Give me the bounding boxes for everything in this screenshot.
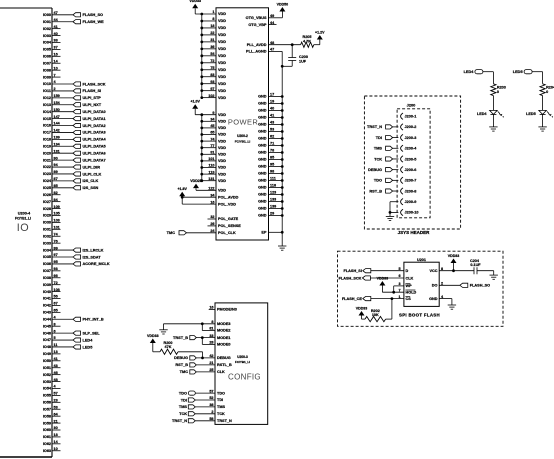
- svg-text:R204: R204: [546, 85, 554, 89]
- svg-text:58: 58: [209, 417, 213, 421]
- IC U200-2 pin 54 VDD: [200, 52, 226, 58]
- svg-text:IO01: IO01: [43, 20, 51, 24]
- svg-text:PMODE/N3: PMODE/N3: [217, 308, 237, 312]
- IC U200-2 pin 19 GND: [258, 100, 284, 106]
- svg-text:43: 43: [270, 121, 274, 125]
- svg-text:FLASH_SCK: FLASH_SCK: [339, 276, 362, 280]
- svg-text:134: 134: [54, 142, 61, 146]
- connector J200 pin 10 (J200-10): [401, 209, 419, 215]
- net flag TMC: [167, 231, 187, 235]
- IC U200-4 pin 16 (IO06): [43, 53, 61, 59]
- IC U201 pin 2 DO / wire to FLASH_SO: [432, 282, 460, 288]
- resistor R205 4.7K: [301, 35, 314, 47]
- IC U200-2 pin 34 POL_AVDD: [210, 193, 238, 199]
- svg-text:J200-5: J200-5: [405, 157, 417, 161]
- svg-text:VDD: VDD: [218, 159, 226, 163]
- connector J200 pin 5 (J200-5): [401, 156, 417, 162]
- IC U200-4 pin 93 (IO37): [43, 267, 61, 273]
- svg-text:85: 85: [270, 156, 274, 160]
- IC U201 reference designator: [417, 258, 426, 262]
- svg-text:133: 133: [270, 198, 276, 202]
- svg-text:VDD: VDD: [218, 82, 226, 86]
- IC U200-2 pin 29 GND: [258, 212, 284, 218]
- svg-text:PLL_AGND: PLL_AGND: [246, 50, 267, 54]
- svg-text:PHY_INT_B: PHY_INT_B: [83, 318, 104, 322]
- IC U200-4 pin 10 (IO08): [43, 66, 61, 72]
- IC U200-2 pin 118 GND: [258, 184, 284, 190]
- svg-text:IO52: IO52: [43, 373, 51, 377]
- wire VDD bus (group A): [201, 14, 203, 98]
- svg-text:IO30: IO30: [43, 221, 51, 225]
- svg-text:WP: WP: [406, 284, 413, 288]
- svg-text:IO43: IO43: [43, 311, 51, 315]
- svg-text:7: 7: [399, 288, 401, 292]
- IC U200-4 pin 103 (IO30): [43, 219, 61, 225]
- svg-text:FLASH_SO: FLASH_SO: [470, 284, 490, 288]
- ground (LED4): [489, 127, 497, 131]
- svg-text:LED4: LED4: [83, 338, 94, 342]
- power symbol VDD33 (WP/HOLD): [377, 276, 389, 285]
- svg-text:71: 71: [270, 142, 274, 146]
- net flag FLASH_SO: [460, 283, 490, 287]
- IC U200-4 pin 97 (IO35) / net I2S_SDAT: [43, 253, 101, 259]
- IC U200-4 IO block body: [0, 8, 52, 457]
- svg-text:IO25: IO25: [43, 186, 51, 190]
- svg-text:FC/YB1_LI: FC/YB1_LI: [235, 360, 250, 364]
- svg-text:CS: CS: [406, 297, 412, 301]
- svg-text:VDD: VDD: [218, 54, 226, 58]
- svg-text:TMS: TMS: [217, 405, 225, 409]
- IC U200-2 pin 9 VDD: [200, 111, 226, 117]
- svg-text:89: 89: [54, 170, 58, 174]
- svg-text:IO54: IO54: [43, 387, 52, 391]
- svg-text:VDD33: VDD33: [448, 254, 460, 258]
- IC U200-4 pin 11 (IO48) / net LED5: [43, 343, 93, 349]
- svg-text:1: 1: [399, 295, 401, 299]
- svg-text:IO35: IO35: [43, 255, 51, 259]
- svg-text:IO13: IO13: [43, 103, 51, 107]
- svg-text:66: 66: [54, 274, 58, 278]
- IC U200-4 pin 10 (IO63): [43, 447, 61, 453]
- IC U200-3 pin 21 RSTL_B: [196, 361, 232, 367]
- net flag FLASH_CE: [342, 297, 371, 301]
- svg-text:+1.8V: +1.8V: [177, 187, 187, 191]
- svg-text:VDD: VDD: [218, 172, 226, 176]
- IC U200-4 pin 7 (IO09): [43, 73, 61, 79]
- svg-text:J200-2: J200-2: [405, 125, 417, 129]
- IC U200-4 pin 5 (IO47) / net LED4: [43, 336, 93, 342]
- IC U201 pin 1 CS / wire FLASH_CE / junction: [371, 295, 411, 301]
- wire R200 to DEBUG line / junction: [178, 352, 204, 360]
- svg-text:122: 122: [208, 187, 214, 191]
- net flag RST_B: [175, 363, 196, 367]
- svg-text:IO59: IO59: [43, 421, 51, 425]
- wire LED LED4 to ground: [492, 115, 494, 127]
- svg-text:ULPI_CLK: ULPI_CLK: [83, 172, 102, 176]
- net flag TMS: [179, 405, 195, 409]
- svg-text:IO00: IO00: [43, 13, 51, 17]
- svg-text:47: 47: [270, 48, 274, 52]
- IC U200-4 pin 67 (IO42): [43, 302, 61, 308]
- svg-text:IO45: IO45: [43, 324, 51, 328]
- power symbol VDD33 (R200 pullup): [147, 334, 159, 343]
- IC U200-4 pin 109 (IO28): [43, 205, 61, 211]
- IC U200-2 part name POWER: [228, 118, 259, 127]
- svg-text:ULPI_DATA4: ULPI_DATA4: [83, 138, 107, 142]
- connector J200 dashed body: [397, 109, 430, 218]
- IC U200-2 pin 62 GND: [258, 135, 284, 141]
- svg-text:72: 72: [210, 59, 214, 63]
- IC U200-4 pin 6 (IO46) / net SLP_SEL: [43, 329, 100, 335]
- IC U200-2 pin 17 GND: [258, 93, 284, 99]
- svg-text:IO14: IO14: [43, 110, 52, 114]
- svg-text:18: 18: [54, 433, 58, 437]
- svg-text:TRST_N: TRST_N: [217, 419, 232, 423]
- svg-text:IO36: IO36: [43, 262, 51, 266]
- capacitor C204 0.1UF: [470, 259, 481, 274]
- svg-text:101: 101: [208, 157, 214, 161]
- svg-text:IO19: IO19: [43, 144, 51, 148]
- svg-text:TMC: TMC: [167, 231, 176, 235]
- svg-text:LED5: LED5: [526, 112, 536, 116]
- resistor R203 0: [491, 84, 506, 96]
- svg-text:VDD: VDD: [218, 19, 226, 23]
- svg-text:FLASH_WE: FLASH_WE: [83, 20, 105, 24]
- IC U200-3 pin 42 DEBUG: [196, 354, 230, 360]
- IC U200-2 pin 85 GND: [258, 156, 284, 162]
- svg-text:GND: GND: [258, 200, 267, 204]
- IC U200-4 pin 95 (IO36) / net ACORE_MCLK: [43, 260, 110, 266]
- svg-text:TRST_N: TRST_N: [367, 125, 382, 129]
- svg-text:DO: DO: [432, 284, 438, 288]
- IC U200-3 pin 57 TDO: [195, 389, 225, 395]
- svg-text:GND: GND: [258, 137, 267, 141]
- svg-text:VDD: VDD: [218, 153, 226, 157]
- IC U200-3 pin 8 MODE3: [211, 320, 230, 326]
- svg-text:VCC: VCC: [429, 269, 437, 273]
- net flag TRST_N: [172, 419, 195, 423]
- svg-text:ULPI_STP: ULPI_STP: [83, 96, 102, 100]
- IC U200-2 pin 123 GND: [258, 191, 284, 197]
- svg-text:57: 57: [209, 389, 213, 393]
- svg-text:IO03: IO03: [43, 34, 51, 38]
- net flag FLASH_SI: [344, 269, 371, 273]
- IC U200-2 pin 65 VDD: [200, 131, 226, 137]
- svg-text:SPI BOOT FLASH: SPI BOOT FLASH: [399, 312, 440, 317]
- IC U201 pin 5 D / wire FLASH_SI: [371, 267, 409, 273]
- connector J200 pin 7 (J200-7): [401, 177, 417, 183]
- IC U200-4 pin 85 (IO25) / net I2S_SSN: [43, 184, 99, 190]
- IC U200-4 pin 43 (IO51): [43, 364, 61, 370]
- svg-text:IO33: IO33: [43, 241, 51, 245]
- svg-text:47K: 47K: [165, 345, 172, 349]
- wire R204 to LED: [542, 96, 544, 111]
- net flag DEBUG: [174, 356, 196, 360]
- wire TMS to J200-4: [393, 147, 399, 149]
- IC U200-4 pin 87 (IO24) / net I2S_CLK: [43, 177, 99, 183]
- svg-text:OTG_VBUS: OTG_VBUS: [246, 16, 267, 20]
- svg-text:U200-3: U200-3: [237, 355, 248, 359]
- svg-text:142: 142: [54, 129, 60, 133]
- svg-text:SLP_SEL: SLP_SEL: [83, 331, 101, 335]
- svg-text:2: 2: [441, 282, 443, 286]
- svg-text:13: 13: [54, 350, 58, 354]
- svg-text:IO16: IO16: [43, 124, 51, 128]
- wire R203 to LED: [492, 96, 494, 111]
- svg-text:0: 0: [546, 90, 548, 94]
- svg-text:23: 23: [54, 399, 58, 403]
- svg-text:VDD33: VDD33: [356, 306, 368, 310]
- wire MODE3 to ground / junction: [164, 322, 216, 330]
- IC U200-4 pin 14 (IO07): [43, 59, 61, 65]
- svg-text:IO08: IO08: [43, 68, 51, 72]
- svg-text:98: 98: [270, 170, 274, 174]
- svg-text:TDO: TDO: [217, 391, 225, 395]
- IC U200-2 pin 131 VDD: [200, 177, 226, 183]
- svg-text:123: 123: [270, 191, 276, 195]
- wire GND bus: [281, 97, 283, 247]
- svg-text:VDD: VDD: [218, 166, 226, 170]
- svg-text:GND: GND: [258, 172, 267, 176]
- IC U200-2 pin 93 VDD: [200, 80, 226, 86]
- svg-text:IO56: IO56: [43, 401, 51, 405]
- svg-text:GND: GND: [258, 179, 267, 183]
- svg-text:IO: IO: [17, 222, 29, 234]
- label JSYS HEADER: [398, 230, 431, 235]
- svg-text:139: 139: [270, 205, 276, 209]
- wire VDD33 to R200: [153, 343, 160, 352]
- svg-text:32: 32: [210, 215, 214, 219]
- svg-text:IO49: IO49: [43, 352, 51, 356]
- IC U200-3 pin 81 MODE2: [209, 327, 230, 333]
- IC U200-2 pin 32 POL_GATE: [208, 215, 239, 221]
- net flag TMC (clock input): [180, 370, 197, 374]
- net flag FLASH_SCK: [339, 276, 371, 280]
- svg-text:2: 2: [211, 410, 213, 414]
- svg-text:IO12: IO12: [43, 96, 51, 100]
- svg-text:DEBUG: DEBUG: [174, 356, 188, 360]
- wire RST_B to J200-8: [393, 190, 399, 192]
- svg-text:IO34: IO34: [43, 248, 52, 252]
- ground (J200): [386, 216, 394, 220]
- svg-text:IO02: IO02: [43, 27, 51, 31]
- IC U200-2 pin 122 VDD / wire from VDD25: [196, 187, 226, 193]
- IC U200-4 pin 99 (IO34) / net I2S_LRCLK: [43, 246, 104, 252]
- connector J200 reference designator: [407, 102, 416, 107]
- svg-text:FLASH_SO: FLASH_SO: [83, 13, 104, 17]
- svg-text:83: 83: [210, 73, 214, 77]
- IC U200-4 pin 46 (IO52): [43, 371, 61, 377]
- IC U200-2 pin 102 VDD: [200, 94, 226, 100]
- svg-text:POL_GATE: POL_GATE: [218, 217, 239, 221]
- svg-text:FLASH_CE: FLASH_CE: [342, 297, 363, 301]
- svg-text:DEBUG: DEBUG: [368, 168, 382, 172]
- ground (POWER GND bus): [278, 246, 286, 250]
- wire C204 to ground: [477, 271, 494, 275]
- svg-text:IO51: IO51: [43, 366, 51, 370]
- svg-text:IO28: IO28: [43, 207, 51, 211]
- IC U200-2 pin 133 GND: [258, 198, 284, 204]
- IC U200-4 pin 56 (IO41): [43, 295, 61, 301]
- svg-text:CONFIG: CONFIG: [228, 372, 261, 381]
- svg-text:POL_SENSE: POL_SENSE: [218, 224, 241, 228]
- wire TDI to J200-3: [393, 137, 399, 139]
- svg-text:25: 25: [209, 368, 213, 372]
- net flag LED4: [464, 70, 483, 74]
- svg-text:IO32: IO32: [43, 234, 51, 238]
- IC U200-4 pin 74 (IO32): [43, 232, 61, 238]
- svg-text:IO15: IO15: [43, 117, 51, 121]
- net flag RST_B (J200-8): [369, 189, 392, 193]
- IC U200-3 CONFIG block body: [215, 303, 268, 425]
- wire LED4 flag to R203: [483, 72, 494, 84]
- IC U200-2 pin 71 GND: [258, 142, 284, 148]
- svg-text:IO10: IO10: [43, 82, 51, 86]
- IC U200-2 pin 98 GND: [258, 170, 284, 176]
- connector J200 pin 4 (J200-4): [401, 145, 418, 151]
- svg-text:RSTL_B: RSTL_B: [217, 363, 232, 367]
- svg-text:48: 48: [270, 41, 274, 45]
- svg-text:CLK: CLK: [406, 276, 414, 280]
- svg-text:GND: GND: [258, 214, 267, 218]
- IC U200-4 pin 144 (IO16) / net ULPI_DATA2: [43, 122, 106, 128]
- svg-text:IO07: IO07: [43, 61, 51, 65]
- IC U200-4 pin 57 (IO55): [43, 392, 61, 398]
- wire LED5 flag to R204: [532, 72, 543, 84]
- wire TDO to J200-7: [393, 179, 399, 181]
- wire TCK to J200-5: [393, 158, 399, 160]
- svg-text:TDI: TDI: [181, 398, 187, 402]
- svg-text:28: 28: [209, 341, 213, 345]
- svg-text:IO41: IO41: [43, 297, 51, 301]
- label SPI BOOT FLASH: [399, 312, 440, 317]
- ground (LED5): [538, 127, 546, 131]
- IC U200-4 pin 4 (IO10) / net FLASH_SCK: [43, 80, 106, 86]
- svg-text:IO60: IO60: [43, 428, 51, 432]
- IC U200-2 pin 119 VDD: [200, 170, 226, 176]
- ground (MODE3/MODE2 tie): [159, 324, 167, 334]
- net flag DEBUG (J200-6): [368, 168, 392, 172]
- svg-text:ULPI_NXT: ULPI_NXT: [83, 103, 102, 107]
- svg-text:MODE3: MODE3: [217, 322, 231, 326]
- svg-text:IO61: IO61: [43, 435, 51, 439]
- net flag TDO (J200-7): [374, 178, 393, 182]
- svg-text:49: 49: [270, 14, 274, 18]
- svg-text:119: 119: [208, 170, 214, 174]
- IC U200-4 pin 154 (IO13) / net ULPI_NXT: [43, 101, 102, 107]
- IC U200-3 pin 33 MODE1: [209, 334, 230, 340]
- IC U200-2 pin 45 VDD: [200, 124, 226, 130]
- svg-text:U201: U201: [417, 258, 426, 262]
- svg-text:VDD50: VDD50: [277, 2, 289, 6]
- svg-text:IO24: IO24: [43, 179, 52, 183]
- svg-text:5: 5: [54, 336, 56, 340]
- svg-text:TRST_B: TRST_B: [173, 336, 188, 340]
- svg-text:TCK: TCK: [179, 412, 187, 416]
- svg-text:45: 45: [210, 124, 214, 128]
- svg-text:78: 78: [270, 149, 274, 153]
- svg-text:GND: GND: [258, 151, 267, 155]
- IC U200-4 pin 108 (IO40): [43, 288, 61, 294]
- net flag TRST_B: [173, 336, 196, 340]
- svg-text:IO48: IO48: [43, 345, 51, 349]
- IC U200-4 pin 47 (IO00) / net FLASH_SO: [43, 11, 103, 17]
- svg-text:VDD33: VDD33: [189, 0, 201, 3]
- svg-text:5: 5: [399, 267, 401, 271]
- svg-text:3: 3: [399, 282, 401, 286]
- IC U200-4 pin 134 (IO19) / net ULPI_DATA5: [43, 142, 107, 148]
- svg-text:VDD: VDD: [218, 126, 226, 130]
- svg-text:FC/YB1_LI: FC/YB1_LI: [15, 217, 31, 221]
- svg-text:IO47: IO47: [43, 338, 51, 342]
- IC U200-4 pin 53 (IO57): [43, 405, 61, 411]
- svg-text:IO62: IO62: [43, 442, 51, 446]
- svg-text:+1.2V: +1.2V: [315, 30, 325, 34]
- svg-text:85: 85: [54, 184, 58, 188]
- svg-text:41: 41: [270, 114, 274, 118]
- svg-text:9: 9: [212, 111, 214, 115]
- IC U200-2 pin 16 POL_VDD: [210, 200, 236, 206]
- svg-text:VDD: VDD: [218, 133, 226, 137]
- svg-text:IO04: IO04: [43, 41, 52, 45]
- svg-text:17: 17: [270, 93, 274, 97]
- svg-text:IO05: IO05: [43, 48, 51, 52]
- svg-text:ULPI_DATA0: ULPI_DATA0: [83, 110, 106, 114]
- svg-text:ULPI_DIR: ULPI_DIR: [83, 165, 101, 169]
- svg-text:FLASH_SI: FLASH_SI: [344, 269, 362, 273]
- IC U200-4 pin 21 (IO59): [43, 419, 61, 425]
- svg-text:POL_VDD: POL_VDD: [218, 202, 236, 206]
- svg-text:29: 29: [270, 212, 274, 216]
- svg-text:75: 75: [210, 66, 214, 70]
- power symbol +1.2V: [315, 30, 325, 39]
- svg-text:1UF: 1UF: [299, 59, 307, 63]
- IC U200-2 pin EP (exposed pad): [261, 231, 283, 235]
- svg-text:J200-7: J200-7: [405, 179, 417, 183]
- svg-text:ULPI_DATA6: ULPI_DATA6: [83, 152, 106, 156]
- IC U200-4 pin 4 (IO54): [43, 385, 61, 391]
- svg-text:R203: R203: [497, 85, 506, 89]
- svg-text:VDD: VDD: [218, 96, 226, 100]
- IC U200-4 pin 30 (IO60): [43, 426, 61, 432]
- IC U200-2 pin 18 VDD: [200, 24, 226, 30]
- svg-text:VDD25: VDD25: [190, 179, 202, 183]
- svg-text:0: 0: [497, 90, 499, 94]
- svg-text:IO37: IO37: [43, 269, 51, 273]
- svg-text:118: 118: [270, 184, 276, 188]
- svg-text:8: 8: [441, 267, 443, 271]
- svg-text:J200-9: J200-9: [405, 200, 417, 204]
- IC U201 pin 3 WP: [399, 282, 413, 288]
- svg-text:97: 97: [210, 87, 214, 91]
- svg-text:GND: GND: [258, 102, 267, 106]
- svg-text:139: 139: [54, 136, 60, 140]
- IC U200-2 POWER block body: [216, 8, 269, 240]
- svg-text:IO17: IO17: [43, 131, 51, 135]
- IC U200-2 reference designator U200-2 FC/YB1_LI: [235, 134, 251, 143]
- svg-text:IO18: IO18: [43, 138, 51, 142]
- svg-text:VDD: VDD: [218, 189, 226, 193]
- IC U200-4 pin 37 (IO05): [43, 46, 61, 52]
- net flag TDI (J200-3): [376, 135, 393, 139]
- svg-text:95: 95: [270, 163, 274, 167]
- net flag TMS (J200-4): [374, 146, 393, 150]
- svg-text:109: 109: [54, 205, 60, 209]
- IC U200-4 pin 13 (IO49): [43, 350, 61, 356]
- IC U200-2 pin 97 VDD: [200, 87, 226, 93]
- IC U200-4 pin 90 (IO21) / net ULPI_DATA7: [43, 156, 106, 162]
- svg-text:TMC: TMC: [180, 370, 189, 374]
